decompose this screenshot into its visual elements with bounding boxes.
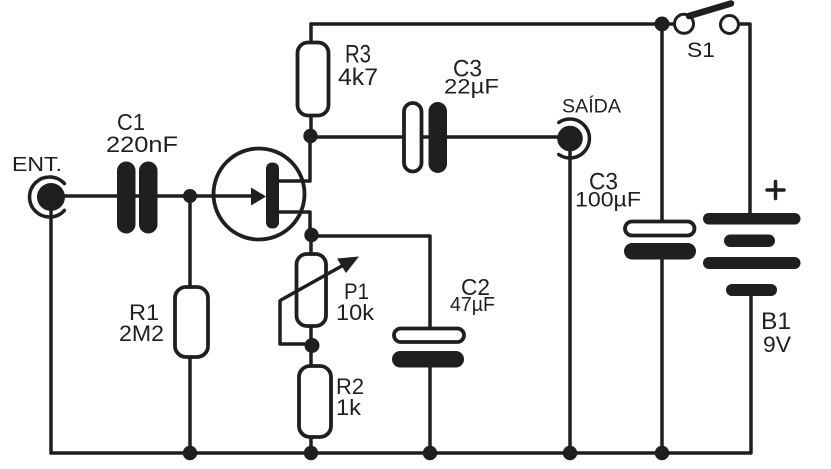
wire node A to switch — [662, 22, 676, 26]
battery B1 plate long lower — [703, 257, 801, 269]
wire R1 branch vertical — [188, 196, 192, 453]
label R3 — [345, 41, 371, 69]
svg-text:SAÍDA: SAÍDA — [562, 97, 621, 118]
node ground SAIDA — [563, 446, 577, 460]
connector SAIDA jack — [557, 119, 589, 158]
wire C2 lower lead to ground — [428, 363, 432, 453]
svg-text:22µF: 22µF — [444, 76, 499, 99]
node ground C2 — [423, 446, 437, 460]
node ground C3 100uF — [655, 446, 669, 460]
value 47uF — [450, 294, 495, 316]
svg-text:47µF: 47µF — [450, 294, 495, 316]
label S1 — [687, 39, 715, 62]
potentiometer P1 — [281, 254, 359, 326]
svg-text:9V: 9V — [763, 332, 791, 357]
svg-text:ENT.: ENT. — [12, 153, 62, 176]
svg-text:B1: B1 — [761, 308, 791, 335]
value 10k — [336, 300, 375, 325]
node B under R3 — [303, 129, 317, 143]
label C2 — [461, 274, 490, 300]
wire battery negative to ground rail — [749, 295, 753, 453]
label R2 — [336, 374, 364, 399]
battery B1 plate short bottom — [726, 284, 777, 296]
wire left vertical from ENT to ground — [49, 198, 53, 453]
value 2M2 — [119, 321, 164, 346]
value 220nF — [106, 132, 178, 157]
wire switch to battery positive — [738, 24, 750, 214]
svg-text:1k: 1k — [336, 395, 362, 420]
svg-text:S1: S1 — [687, 39, 715, 62]
svg-text:2M2: 2M2 — [119, 321, 164, 346]
label R1 — [129, 300, 159, 325]
value 1k — [336, 395, 362, 420]
battery B1 plate long top — [703, 213, 801, 225]
label B1 — [761, 308, 791, 335]
capacitor C3 100uF bottom plate — [624, 243, 696, 260]
capacitor C1 right plate — [139, 162, 158, 234]
connector ENT jack — [30, 177, 65, 217]
node junction input-R1 — [183, 189, 197, 203]
battery B1 plate short upper — [724, 235, 775, 248]
label P1 — [344, 279, 369, 304]
transistor Q1 — [214, 149, 305, 240]
capacitor C3 22uF left plate — [404, 103, 422, 172]
capacitor C2 bottom plate — [392, 351, 464, 368]
value 4k7 — [338, 64, 378, 91]
node ground R2 — [304, 446, 318, 460]
switch S1 — [675, 4, 739, 34]
wire node C through P1 R2 to ground — [309, 235, 313, 453]
capacitor C3 22uF right plate — [429, 102, 448, 173]
svg-text:100µF: 100µF — [575, 189, 641, 212]
capacitor C3 100uF top plate — [625, 222, 695, 236]
label ENT. — [12, 153, 62, 176]
svg-text:4k7: 4k7 — [338, 64, 378, 91]
wire SAIDA connector down to ground — [568, 150, 572, 453]
wire bottom ground rail — [51, 451, 750, 455]
node D between P1 and R2 — [305, 338, 320, 353]
wire R3 branch vertical — [309, 24, 313, 136]
value 22uF — [444, 76, 499, 99]
resistor R1 — [175, 287, 208, 357]
wire node C to C2 branch — [311, 236, 430, 329]
wire source lead to node C — [279, 212, 310, 235]
wire input ENT to transistor base — [51, 194, 262, 198]
label C3 100uF — [589, 169, 618, 196]
resistor R2 — [299, 366, 331, 437]
wire node B to SAIDA output — [311, 135, 566, 139]
node C transistor source — [304, 228, 318, 242]
capacitor C2 top plate — [394, 329, 464, 343]
value 9V — [763, 332, 791, 357]
resistor R3 — [298, 43, 329, 116]
wire top supply rail — [311, 22, 662, 26]
label SAIDA — [562, 97, 621, 118]
value 100uF — [575, 189, 641, 212]
battery B1 plus sign — [767, 182, 784, 199]
svg-text:220nF: 220nF — [106, 132, 178, 157]
capacitor C1 left plate — [117, 162, 136, 234]
wire drain lead to node B — [279, 136, 310, 181]
label C1 — [117, 109, 145, 135]
svg-text:10k: 10k — [336, 300, 375, 325]
label C3 — [453, 56, 482, 83]
node ground R1 — [183, 446, 197, 460]
node A top rail — [655, 17, 670, 32]
wire node A down through C3 100uF to ground — [660, 24, 664, 453]
wire P1 wiper to bottom terminal — [280, 301, 309, 344]
